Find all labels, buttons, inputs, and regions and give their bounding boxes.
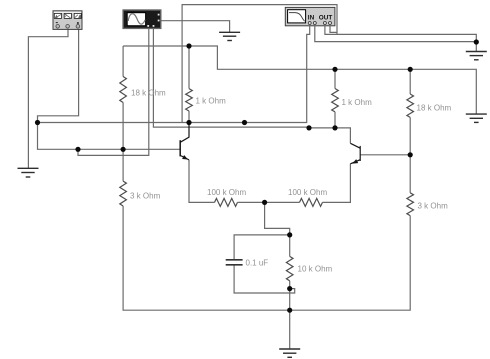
svg-text:3 k Ohm: 3 k Ohm: [418, 202, 449, 211]
junction Q2 base: [408, 152, 413, 157]
wire scope right terminal to top ground: [161, 21, 230, 33]
svg-text:OUT: OUT: [319, 14, 333, 21]
wire 10k leads: [289, 235, 291, 257]
resistor R18kR zigzag: [407, 94, 414, 117]
wire scope channel B to Q2 collector net: [153, 29, 309, 128]
instrument oscilloscope: [123, 10, 161, 28]
junction ground G2: [474, 39, 479, 44]
wire right column 18k lead: [409, 69, 411, 94]
wire 1k left leads: [188, 46, 190, 89]
ground G4 bottom: [279, 349, 300, 357]
resistor R3kL zigzag: [120, 181, 127, 206]
junction 1kR bottom: [332, 125, 337, 130]
wire left column between 18k and 3k: [122, 103, 124, 182]
junction 18kL bottom: [121, 147, 126, 152]
wire gen right terminal to node A: [38, 29, 79, 122]
wire 100k2 to Q2 emitter: [323, 164, 351, 203]
wire ground G2 stem: [475, 42, 477, 52]
wire cap branch: [234, 235, 290, 260]
junction rail 1kL top: [186, 43, 191, 48]
junction Q1 collector: [186, 120, 191, 125]
wire Q2 base to right column: [360, 154, 410, 156]
wire Q1 emitter to 100k: [189, 160, 215, 203]
wire bode OUT- stub: [330, 26, 337, 32]
resistor R18kL zigzag: [120, 77, 127, 103]
wire between 100k resistors: [238, 201, 300, 203]
resistor R1kL zigzag: [186, 89, 193, 111]
wire left column 3k bottom to bottom rail: [123, 206, 410, 310]
svg-text:100 k Ohm: 100 k Ohm: [288, 188, 327, 197]
instrument function generator: [53, 11, 82, 30]
svg-text:3 k Ohm: 3 k Ohm: [130, 192, 161, 201]
junction base-left: [75, 147, 80, 152]
wire left column 18k lead upper: [122, 46, 124, 77]
resistor R1kR zigzag: [332, 89, 339, 112]
junction bottom rail: [287, 308, 292, 313]
instrument bode plotter: [285, 7, 335, 25]
junction rail 1kR top: [332, 67, 337, 72]
junction cap bottom: [287, 286, 292, 291]
svg-text:1 k Ohm: 1 k Ohm: [342, 98, 373, 107]
resistor R10k zigzag: [286, 256, 293, 280]
junction rail 18kR top: [408, 67, 413, 72]
wire emitter node down to cap/10k top: [265, 202, 290, 235]
capacitor C1 plates: [226, 259, 243, 261]
wire VCC rail: [123, 46, 476, 114]
svg-text:10 k Ohm: 10 k Ohm: [298, 265, 333, 274]
wire 10k bottom to ground G4: [289, 289, 291, 349]
wire bode OUT loop rectangle: [182, 5, 337, 123]
junction scopeB jog: [306, 125, 311, 130]
svg-text:100 k Ohm: 100 k Ohm: [207, 188, 246, 197]
wire 1k right leads: [334, 69, 336, 88]
resistor R3kR zigzag: [407, 193, 414, 216]
wire scope channel A: [78, 29, 149, 156]
junction node A: [35, 120, 40, 125]
ground G3 right: [466, 114, 487, 122]
wire bode IN- to ground: [315, 26, 477, 41]
wire Q1 base net: [78, 148, 180, 150]
wire output net horizontal: [38, 26, 310, 122]
wire node A down to base wire: [38, 123, 79, 150]
resistor R100k2 zigzag: [300, 198, 323, 206]
svg-text:IN: IN: [308, 14, 315, 21]
wire right column between 18k and base node: [409, 117, 411, 154]
junction emitter node: [262, 200, 267, 205]
wire gen middle terminal to ground: [28, 29, 68, 168]
svg-text:1 k Ohm: 1 k Ohm: [196, 97, 227, 106]
svg-text:18 k Ohm: 18 k Ohm: [417, 104, 452, 113]
junction output jog: [242, 120, 247, 125]
junction cap top: [287, 232, 292, 237]
resistor R100k1 zigzag: [215, 198, 238, 206]
wire bode OUT+ to ground: [325, 26, 476, 42]
svg-text:0.1 uF: 0.1 uF: [246, 259, 269, 268]
transistor Q1: [180, 123, 189, 160]
wire right column base node to 3k: [409, 155, 411, 193]
ground G2 top right: [466, 52, 487, 60]
svg-text:18 k Ohm: 18 k Ohm: [131, 89, 166, 98]
ground G0 top middle: [219, 32, 240, 40]
transistor Q2: [350, 143, 360, 164]
ground G1 left: [18, 168, 39, 177]
